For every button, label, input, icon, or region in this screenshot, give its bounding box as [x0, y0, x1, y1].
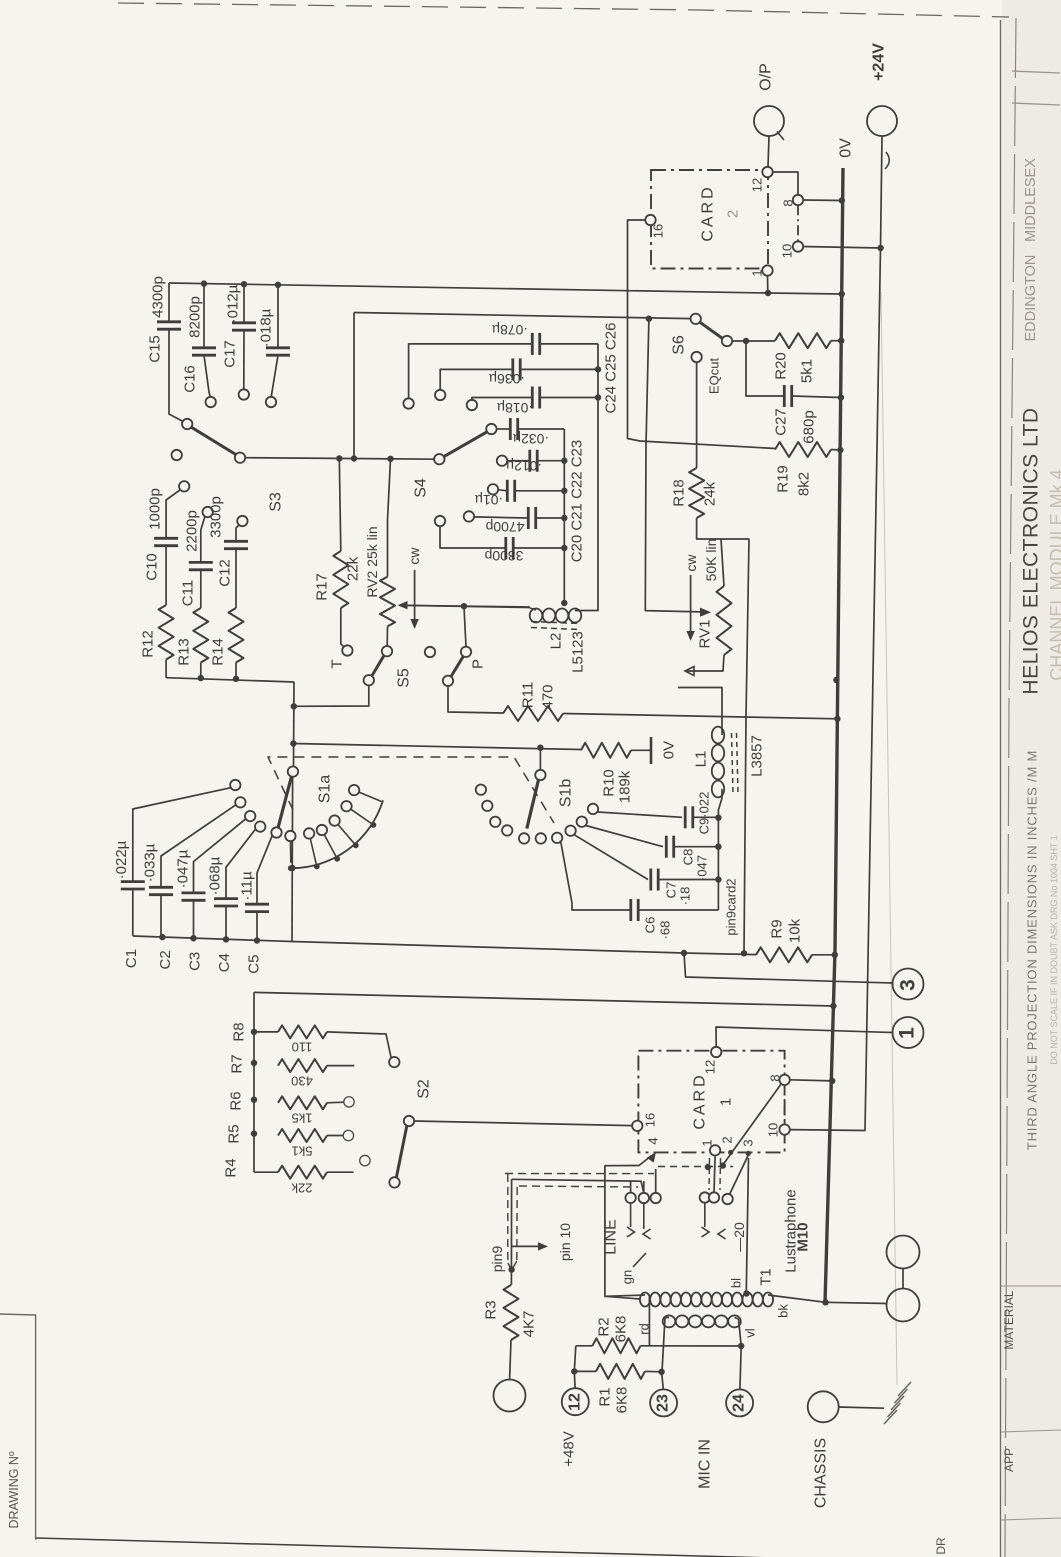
svg-text:CHASSIS: CHASSIS: [813, 1438, 830, 1508]
right column paper tone: [1002, 0, 1061, 1557]
svg-text:MATERIAL: MATERIAL: [1002, 1290, 1016, 1349]
screen dashes vertical: [507, 1174, 509, 1263]
wire card2 pin1 down to node W1: [767, 276, 769, 293]
svg-text:·012µ: ·012µ: [506, 458, 542, 474]
capacitor C16 8200p: [192, 346, 216, 349]
svg-text:S3: S3: [268, 492, 285, 512]
switch S6: [691, 314, 701, 324]
capacitor C5 ·11µ: [245, 903, 269, 906]
svg-text:16: 16: [651, 224, 666, 238]
svg-text:·01µ: ·01µ: [475, 492, 503, 508]
svg-text:3: 3: [741, 1139, 756, 1146]
svg-text:S5: S5: [396, 668, 413, 688]
svg-text:6K8: 6K8: [613, 1316, 630, 1343]
svg-text:C24 C25 C26: C24 C25 C26: [603, 323, 620, 414]
svg-text:8: 8: [768, 1074, 783, 1081]
resistor R9 10k: [756, 947, 812, 962]
svg-text:—20: —20: [731, 1222, 747, 1252]
svg-text:0V: 0V: [661, 741, 678, 759]
capacitor C21 .01u: [488, 484, 498, 494]
svg-text:·047: ·047: [695, 855, 710, 881]
svg-text:S2: S2: [416, 1079, 433, 1099]
svg-text:R8: R8: [231, 1022, 248, 1041]
screen dashes at card1 bottom: [658, 1166, 733, 1168]
svg-text:C7: C7: [664, 882, 679, 899]
svg-text:10: 10: [766, 1123, 781, 1137]
sheet border tick marks top right: [1012, 71, 1060, 73]
wire W2 horizontal: [354, 313, 691, 319]
svg-text:R9: R9: [769, 919, 786, 938]
wire T1 primary to 0V bus (bk): [768, 1295, 826, 1302]
switch P: [443, 676, 453, 686]
terminal 23: [662, 1372, 664, 1390]
svg-text:2200p: 2200p: [184, 510, 201, 552]
wire link risers left: [630, 1181, 632, 1193]
switch S2: [404, 1116, 414, 1126]
svg-text:1k5: 1k5: [292, 1111, 313, 1126]
svg-text:C12: C12: [217, 559, 234, 587]
svg-text:4700p: 4700p: [485, 519, 524, 535]
svg-text:3300p: 3300p: [484, 548, 523, 564]
svg-text:R13: R13: [176, 638, 193, 666]
svg-text:O/P: O/P: [758, 63, 775, 91]
resistor R1 6K8: [596, 1364, 645, 1379]
capacitor C3 ·047µ: [182, 892, 206, 895]
wire pin9 card2 drop: [744, 539, 749, 953]
card2 pin 12: [762, 167, 772, 177]
terminal 3: [893, 969, 924, 1000]
label MATERIAL: [1001, 1285, 1061, 1287]
svg-text:RV1: RV1: [697, 620, 714, 649]
svg-text:R1: R1: [597, 1387, 614, 1406]
wire S3 pole to S4 pole: [245, 458, 434, 460]
wire 0V bus: [825, 168, 843, 1303]
svg-text:pin9: pin9: [489, 1246, 505, 1273]
label APP: [1001, 1430, 1061, 1432]
card2 pin 8: [793, 195, 803, 205]
svg-text:10k: 10k: [787, 918, 804, 943]
wire card2 pin12 to pin8: [773, 172, 798, 195]
link chevrons left: [630, 1203, 632, 1227]
svg-text:R17: R17: [314, 573, 331, 601]
svg-text:pin9card2: pin9card2: [724, 878, 739, 935]
svg-text:1: 1: [896, 1027, 919, 1039]
mechanical coupling dashed link S1a-S1b: [268, 757, 554, 823]
terminal 12 (+48V): [562, 1388, 589, 1415]
svg-text:CARD: CARD: [700, 184, 717, 241]
capacitor C9 .022: [598, 812, 683, 817]
wire card1 pin3 to contact: [730, 1155, 749, 1195]
capacitor C20 4700p: [464, 511, 474, 521]
wire secondary right down: [739, 1319, 742, 1346]
svg-text:R20: R20: [773, 352, 790, 380]
svg-text:·11µ: ·11µ: [239, 871, 256, 901]
svg-text:22k: 22k: [345, 556, 362, 581]
sheet top border (dashed): [118, 3, 1009, 17]
svg-text:3: 3: [897, 979, 920, 991]
svg-text:·078µ: ·078µ: [492, 322, 528, 338]
test point T: [342, 645, 352, 655]
resistor R12: [159, 605, 174, 660]
svg-text:C8: C8: [681, 849, 696, 866]
wire W5 long horizontal (C bank common): [133, 936, 756, 955]
resistor R19 8k2: [775, 442, 831, 457]
capacitor C23 .032u: [486, 424, 496, 434]
wire bl riser pin3 to centre tap: [746, 1158, 748, 1291]
resistor R6 1k5: [278, 1096, 327, 1109]
resistor R4 22k: [253, 1168, 255, 1172]
svg-text:pin 10: pin 10: [557, 1223, 573, 1261]
svg-text:4K7: 4K7: [521, 1311, 538, 1338]
card U-CARD2 outline: [651, 170, 768, 269]
card2 pin 1: [762, 265, 772, 275]
wire W6 long horizontal: [254, 992, 833, 1006]
svg-text:10: 10: [780, 244, 795, 258]
RV1 bottom stub with connector arrow: [686, 655, 724, 671]
wire R18 bottom to pin9card2 node: [697, 518, 749, 539]
svg-text:5k1: 5k1: [292, 1144, 313, 1159]
card1 pin 1: [710, 1145, 720, 1155]
potentiometer RV2 25k lin: [380, 577, 395, 627]
svg-text:·047µ: ·047µ: [175, 849, 192, 888]
capacitor C4 ·068µ: [214, 897, 238, 900]
svg-text:C16: C16: [182, 365, 199, 393]
svg-text:R7: R7: [229, 1054, 246, 1073]
svg-text:470: 470: [540, 684, 557, 709]
svg-text:cw: cw: [406, 547, 422, 565]
switch S3 arm: [192, 427, 236, 454]
switch S3 contacts row1: [182, 419, 192, 429]
svg-text:2: 2: [725, 210, 742, 218]
svg-text:C10: C10: [144, 553, 161, 581]
svg-text:T1: T1: [758, 1268, 775, 1286]
svg-text:12: 12: [750, 178, 765, 192]
wire capacitor common bus to L1: [717, 817, 719, 910]
svg-text:1: 1: [750, 269, 765, 276]
resistor R11 470: [503, 706, 563, 721]
capacitor C15 4300p: [157, 320, 181, 323]
wire gn bracket (LINE input): [605, 1156, 651, 1299]
switch S1b right contacts: [552, 833, 562, 843]
svg-text:4: 4: [646, 1137, 661, 1144]
svg-text:L5123: L5123: [570, 631, 587, 673]
svg-text:22k: 22k: [291, 1181, 312, 1196]
svg-text:S1b: S1b: [558, 779, 575, 808]
wire S6 arm to R20: [732, 340, 775, 342]
link contacts left group: [625, 1193, 635, 1203]
switch S1a arm: [278, 777, 292, 829]
faint inner border right of schematic: [881, 292, 897, 1385]
junction dot on 0V bus: [833, 677, 839, 683]
svg-text:·68: ·68: [658, 921, 673, 940]
svg-text:24k: 24k: [702, 481, 719, 506]
svg-text:C27: C27: [773, 408, 790, 436]
svg-text:·022µ: ·022µ: [113, 840, 130, 879]
svg-text:·068µ: ·068µ: [207, 856, 224, 895]
card1 pin8-pin10 dash-dot bracket: [784, 1085, 786, 1124]
svg-text:·032µ: ·032µ: [513, 431, 549, 447]
terminal MIC IN: [494, 1380, 526, 1412]
wire secondary left to terminal 23: [662, 1318, 665, 1372]
terminal O/P: [754, 106, 784, 136]
wire P top to RV2 wiper line: [464, 607, 466, 647]
svg-text:C15: C15: [147, 335, 164, 363]
screen dashes horizontal: [505, 1173, 654, 1175]
svg-text:·036µ: ·036µ: [489, 371, 525, 387]
drawing number box: [0, 1314, 36, 1540]
resistor R13: [193, 608, 208, 663]
pin 10 arrow: [512, 1245, 543, 1247]
svg-text:·018µ: ·018µ: [258, 308, 275, 347]
card1 pin 2 tick: [728, 1150, 733, 1155]
svg-text:430: 430: [291, 1074, 313, 1089]
wire terminal1 to card1 pin12: [716, 1027, 893, 1047]
svg-text:6K8: 6K8: [614, 1387, 631, 1414]
svg-text:MIC IN: MIC IN: [697, 1439, 714, 1489]
svg-text:L1: L1: [693, 751, 710, 768]
svg-text:110: 110: [292, 1040, 313, 1055]
svg-text:12: 12: [567, 1393, 584, 1411]
svg-text:·18: ·18: [678, 887, 693, 906]
svg-text:HELIOS ELECTRONICS LTD: HELIOS ELECTRONICS LTD: [1020, 407, 1043, 694]
transformer T1 secondary winding: [663, 1315, 676, 1327]
svg-text:C17: C17: [222, 340, 239, 368]
svg-text:C2: C2: [157, 950, 174, 969]
resistor R5 5k1: [278, 1129, 327, 1142]
card1 pin 16: [632, 1121, 642, 1131]
wire RC bank bottom to node bus: [166, 678, 294, 682]
+24V circle tail mark: [885, 152, 889, 169]
terminal 1: [893, 1017, 924, 1048]
switch S5: [364, 675, 374, 685]
capacitor C6 .68: [561, 841, 631, 911]
svg-text:23: 23: [655, 1394, 672, 1412]
svg-text:3300p: 3300p: [208, 496, 225, 538]
terminal CHASSIS: [808, 1391, 839, 1422]
capacitor C10 1000p: [154, 537, 178, 540]
svg-text:1: 1: [700, 1139, 715, 1146]
svg-text:cw: cw: [683, 554, 699, 572]
screened wire to card1 (solid): [512, 1179, 644, 1193]
svg-text:DR: DR: [934, 1537, 948, 1555]
capacitor C18 .018u: [266, 346, 290, 349]
svg-text:R10: R10: [601, 769, 618, 797]
resistor R3 4K7: [504, 1285, 519, 1340]
resistor R8 110: [254, 1031, 278, 1033]
spare contact: [360, 1155, 370, 1165]
svg-text:2: 2: [720, 1136, 735, 1143]
wire mic connector link: [902, 1269, 904, 1289]
wire main node bus vertical: [293, 682, 296, 767]
card1 pin 8: [779, 1075, 789, 1085]
svg-text:C3: C3: [186, 952, 203, 971]
svg-text:8200p: 8200p: [187, 296, 204, 338]
terminal 24: [726, 1389, 753, 1416]
svg-text:C9·022: C9·022: [697, 792, 712, 835]
transformer T1 primary winding: [640, 1293, 650, 1307]
resistor R10 189k: [581, 743, 631, 758]
capacitor C24 .018u: [467, 400, 477, 410]
capacitor C25 .036u: [435, 390, 445, 400]
wire outer capacitor bus: [581, 344, 598, 611]
capacitor 3300p: [435, 516, 445, 526]
RV2 wiper: [401, 605, 530, 607]
resistor R2 6K8: [592, 1338, 640, 1353]
svg-text:·012µ: ·012µ: [225, 284, 242, 323]
svg-text:R19: R19: [775, 465, 792, 493]
svg-text:+48V: +48V: [561, 1431, 578, 1466]
svg-text:R12: R12: [140, 630, 157, 658]
switch S1a collector arc: [291, 800, 383, 868]
wire rd riser: [648, 1296, 650, 1346]
sheet bottom border: [36, 1538, 920, 1557]
svg-text:rd: rd: [637, 1323, 652, 1335]
svg-text:C1: C1: [123, 949, 140, 968]
wire card1 pin8 to 0V bus: [790, 1080, 832, 1081]
capacitor C26 .078u: [403, 398, 413, 408]
svg-text:EQcut: EQcut: [707, 358, 722, 395]
svg-text:R2: R2: [596, 1317, 613, 1336]
svg-text:4300p: 4300p: [150, 276, 167, 318]
svg-text:+24V: +24V: [871, 43, 888, 81]
svg-text:·018µ: ·018µ: [497, 400, 533, 416]
wire S5 pole to node bus: [294, 685, 369, 706]
svg-text:bl: bl: [729, 1278, 744, 1288]
terminal +24V: [867, 106, 897, 136]
svg-text:R14: R14: [210, 638, 227, 666]
wire to terminal 3: [684, 953, 893, 983]
svg-text:680p: 680p: [801, 410, 818, 443]
capacitor C7 .18: [574, 835, 648, 880]
capacitor C1 ·022µ: [121, 880, 145, 883]
title block divider line: [1000, 20, 1002, 1557]
wire L1 top stub: [678, 688, 722, 730]
svg-text:189k: 189k: [617, 770, 634, 803]
svg-text:50K lin: 50K lin: [703, 539, 719, 582]
switch S4 pole: [434, 454, 444, 464]
inductor L2 L5123: [530, 609, 543, 623]
svg-text:R5: R5: [226, 1124, 243, 1143]
ground 0V stub: [631, 749, 651, 751]
svg-text:CARD: CARD: [692, 1072, 709, 1129]
svg-text:5k1: 5k1: [799, 359, 816, 383]
card1 pin 12: [711, 1047, 721, 1057]
svg-text:R18: R18: [671, 479, 688, 507]
switch S1a right contacts with stubs: [285, 831, 295, 841]
resistor R14: [229, 608, 244, 663]
svg-text:DRAWING Nº: DRAWING Nº: [7, 1451, 21, 1528]
svg-text:gn: gn: [620, 1270, 635, 1284]
sheet right border: [1005, 18, 1016, 1557]
svg-text:R11: R11: [520, 682, 537, 708]
wire node bus to R10: [293, 744, 581, 750]
svg-text:P: P: [470, 659, 487, 669]
svg-text:C20 C21 C22 C23: C20 C21 C22 C23: [569, 440, 586, 563]
wire P bottom to R11: [448, 686, 503, 713]
svg-text:CHANNEL MODULE Mk 4: CHANNEL MODULE Mk 4: [1047, 469, 1061, 680]
wire +24V rail: [790, 136, 882, 1131]
svg-text:T: T: [329, 659, 346, 668]
riser node W2 left end: [353, 313, 355, 459]
svg-text:L2: L2: [548, 633, 565, 650]
svg-text:RV2 25k lin: RV2 25k lin: [364, 526, 380, 597]
svg-text:bk: bk: [776, 1304, 791, 1318]
wire inner capacitor bus: [563, 429, 565, 603]
link arm gn side: [633, 1253, 646, 1267]
svg-text:1: 1: [718, 1098, 735, 1106]
wire R bank left bus: [253, 992, 255, 1168]
card1 pin 3 tick: [746, 1151, 751, 1156]
resistor R20 5k1: [775, 333, 831, 348]
wire R11 to 0V bus: [563, 714, 837, 719]
svg-text:C6: C6: [643, 917, 658, 934]
label DR: [1001, 1518, 1061, 1520]
potentiometer RV1 50K lin: [721, 539, 724, 586]
svg-text:THIRD ANGLE PROJECTION DIM: THIRD ANGLE PROJECTION DIMENSIONS IN INC…: [1025, 750, 1040, 1150]
svg-text:24: 24: [731, 1394, 748, 1412]
capacitor C17 .012u: [232, 321, 256, 324]
resistor R18 24k: [689, 468, 704, 518]
svg-text:L3857: L3857: [749, 735, 766, 777]
svg-text:S1a: S1a: [317, 775, 334, 804]
switch S1b left contacts: [476, 785, 486, 795]
wire +48V riser: [574, 1346, 576, 1372]
switch S1a left contacts: [230, 780, 240, 790]
svg-text:C4: C4: [216, 953, 233, 972]
switch S1b arm: [527, 780, 539, 829]
mic connector circle upper: [887, 1236, 920, 1269]
svg-text:R3: R3: [483, 1300, 500, 1319]
switch S1a pole: [288, 766, 298, 776]
svg-text:EDDINGTON: EDDINGTON: [1023, 255, 1039, 342]
junction pin 9: [508, 1266, 514, 1272]
resistor R7 430: [278, 1059, 327, 1072]
svg-text:0V: 0V: [838, 138, 855, 158]
svg-text:16: 16: [643, 1113, 658, 1127]
switch S4 arm: [444, 432, 488, 457]
capacitor C27 680p: [746, 341, 784, 396]
capacitor C8 .047: [586, 826, 663, 847]
svg-text:LINE: LINE: [603, 1219, 620, 1255]
svg-text:8: 8: [781, 199, 796, 206]
svg-text:1000p: 1000p: [147, 488, 164, 530]
switch S3 spare contact: [172, 450, 182, 460]
svg-text:DO NOT SCALE IF IN DOUBT ASK: DO NOT SCALE IF IN DOUBT ASK DRG No 1004…: [1049, 835, 1059, 1065]
switch S3 pole: [235, 453, 245, 463]
wire O/P to card2 pin 12: [768, 136, 769, 167]
capacitor C12 3300p: [224, 540, 248, 543]
svg-text:S4: S4: [413, 478, 430, 498]
switch S1b pole: [535, 770, 545, 780]
svg-text:·033µ: ·033µ: [142, 843, 159, 882]
wire RV1 wiper riser from W2: [645, 319, 701, 612]
card2 pin8-pin10 dash-dot bracket: [797, 205, 799, 241]
svg-text:12: 12: [703, 1060, 718, 1074]
svg-text:8k2: 8k2: [796, 472, 813, 496]
card2 pin 16: [645, 215, 655, 225]
wire card2 pin8 to 0V bus: [803, 199, 842, 202]
resistor R17 22k: [333, 551, 348, 608]
wire card2 pin10 to +24V rail: [803, 247, 880, 249]
card2 pin 10: [793, 241, 803, 251]
wire W1 top horizontal: [169, 283, 842, 294]
capacitor C11 2200p: [189, 561, 213, 564]
svg-text:C11: C11: [180, 580, 197, 606]
card U-CARD1 outline: [638, 1051, 784, 1153]
inductor L1 L3857: [712, 727, 724, 744]
wire card2 pin16 to R19 node: [628, 220, 776, 449]
wire card1 pin1 down to link contact: [714, 1156, 715, 1193]
